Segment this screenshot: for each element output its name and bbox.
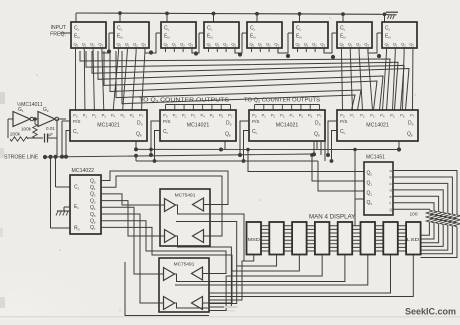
svg-text:Q3: Q3 [90,198,96,204]
svg-text:MC75491: MC75491 [174,262,195,268]
svg-text:MC14021: MC14021 [187,123,210,129]
svg-text:P/S: P/S [252,119,259,124]
svg-text:STROBE LINE: STROBE LINE [4,155,39,161]
svg-text:MC75491: MC75491 [175,193,196,199]
svg-text:INPUT: INPUT [50,25,66,31]
svg-text:100k: 100k [21,127,32,132]
svg-text:0.01: 0.01 [46,126,55,131]
svg-text:MC14021: MC14021 [276,123,299,129]
svg-text:FREQ.: FREQ. [50,32,66,38]
svg-text:MSD: MSD [248,237,261,242]
svg-text:c: c [390,181,392,186]
svg-text:g: g [390,207,392,212]
svg-text:μF: μF [48,132,53,137]
svg-text:MC14021: MC14021 [366,123,389,129]
svg-text:P/S: P/S [163,119,170,124]
svg-text:200k: 200k [10,132,21,137]
svg-text:Q7: Q7 [90,225,96,231]
svg-text:TO Q3 COUNTER OUTPUTS: TO Q3 COUNTER OUTPUTS [139,98,230,104]
svg-text:Q2: Q2 [90,192,96,198]
svg-text:MAN 4 DISPLAY: MAN 4 DISPLAY [309,214,355,221]
svg-text:MC14021: MC14021 [97,123,120,129]
svg-text:d: d [390,187,392,192]
svg-text:MC1451: MC1451 [366,155,385,161]
svg-text:100: 100 [409,212,417,218]
svg-text:MC14022: MC14022 [72,168,95,174]
svg-text:P/S: P/S [73,119,80,124]
svg-text:Q4: Q4 [90,205,96,211]
svg-text:SeekIC.com: SeekIC.com [405,307,456,317]
svg-text:LSD: LSD [407,237,420,242]
svg-text:TO Q2 COUNTER OUTPUTS: TO Q2 COUNTER OUTPUTS [244,98,321,104]
svg-text:P/S: P/S [340,119,347,124]
